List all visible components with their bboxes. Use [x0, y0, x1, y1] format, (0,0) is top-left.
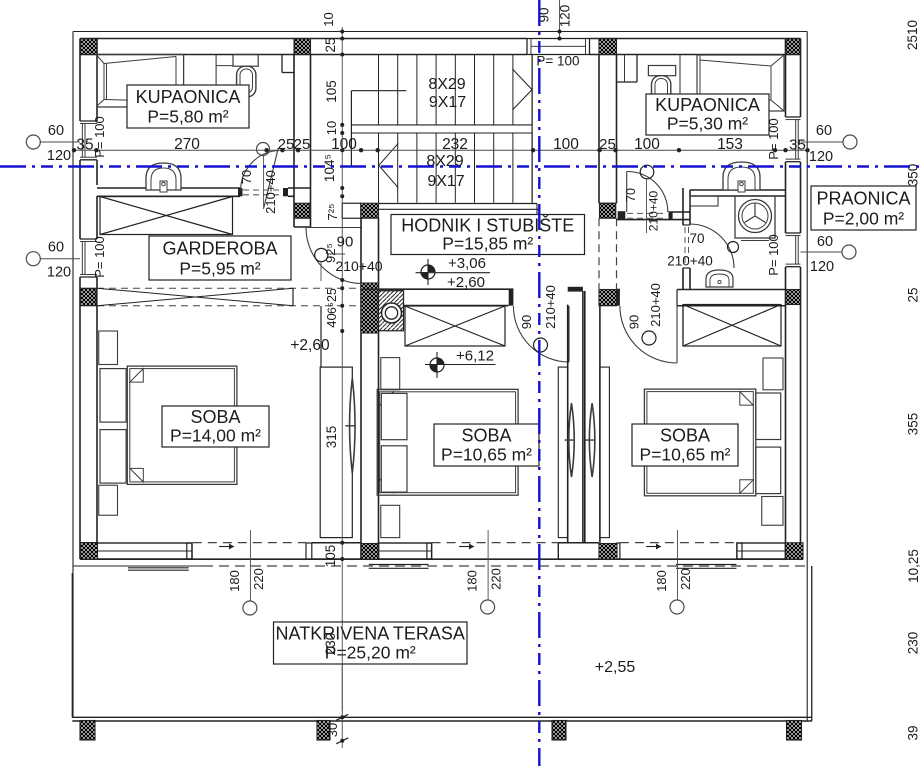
svg-text:P=5,95 m²: P=5,95 m² — [179, 258, 260, 278]
svg-text:60: 60 — [48, 123, 64, 139]
svg-text:9X17: 9X17 — [429, 94, 466, 111]
svg-text:70: 70 — [624, 188, 638, 202]
svg-text:120: 120 — [558, 5, 573, 28]
svg-text:P=10,65 m²: P=10,65 m² — [441, 445, 532, 465]
svg-text:70: 70 — [689, 231, 704, 246]
svg-text:P=25,20 m²: P=25,20 m² — [325, 643, 416, 663]
svg-text:P= 100: P= 100 — [536, 54, 579, 69]
svg-text:+2,60: +2,60 — [290, 337, 330, 354]
svg-text:105: 105 — [324, 80, 339, 103]
svg-text:120: 120 — [47, 148, 71, 164]
svg-text:90: 90 — [519, 315, 534, 329]
svg-text:KUPAONICA: KUPAONICA — [136, 87, 241, 107]
svg-text:10: 10 — [324, 121, 339, 135]
svg-text:30: 30 — [325, 723, 340, 737]
svg-text:8X29: 8X29 — [428, 76, 465, 93]
svg-text:+3,06: +3,06 — [448, 255, 486, 272]
svg-text:KUPAONICA: KUPAONICA — [655, 95, 760, 115]
svg-text:39: 39 — [906, 725, 921, 740]
svg-text:25: 25 — [323, 37, 338, 52]
svg-text:220: 220 — [251, 568, 266, 590]
svg-text:25: 25 — [294, 136, 311, 153]
svg-text:120: 120 — [810, 259, 834, 275]
svg-text:60: 60 — [816, 123, 832, 139]
svg-text:220: 220 — [678, 568, 693, 590]
svg-text:232: 232 — [442, 136, 468, 153]
svg-text:40: 40 — [324, 313, 339, 327]
svg-text:230: 230 — [323, 633, 338, 656]
svg-text:180: 180 — [465, 570, 480, 592]
svg-text:P=5,80 m²: P=5,80 m² — [147, 106, 228, 126]
svg-text:HODNIK I STUBIŠTE: HODNIK I STUBIŠTE — [401, 214, 574, 235]
svg-text:220: 220 — [489, 568, 504, 590]
svg-text:+6,12: +6,12 — [456, 348, 494, 365]
svg-text:35: 35 — [789, 136, 806, 153]
svg-text:SOBA: SOBA — [660, 426, 710, 446]
svg-text:180: 180 — [654, 570, 669, 592]
svg-text:270: 270 — [174, 136, 200, 153]
svg-text:105: 105 — [323, 545, 338, 568]
svg-text:355: 355 — [906, 413, 921, 436]
svg-text:6⁵: 6⁵ — [325, 302, 339, 314]
svg-text:SOBA: SOBA — [461, 426, 511, 446]
svg-text:120: 120 — [809, 149, 833, 165]
svg-text:90: 90 — [337, 234, 354, 251]
svg-text:P= 100: P= 100 — [766, 234, 781, 276]
svg-text:NATKRIVENA TERASA: NATKRIVENA TERASA — [276, 624, 465, 644]
svg-text:210+40: 210+40 — [335, 258, 382, 274]
svg-text:10,25: 10,25 — [906, 549, 921, 583]
svg-text:210+40: 210+40 — [543, 285, 558, 329]
svg-text:210+40: 210+40 — [648, 283, 663, 327]
svg-text:25: 25 — [599, 136, 616, 153]
svg-text:7²⁵: 7²⁵ — [325, 204, 340, 221]
svg-text:GARDEROBA: GARDEROBA — [162, 238, 277, 258]
svg-text:100: 100 — [634, 136, 660, 153]
svg-text:315: 315 — [324, 426, 339, 449]
svg-text:90: 90 — [627, 315, 642, 329]
svg-text:60: 60 — [48, 240, 64, 256]
svg-text:P=14,00 m²: P=14,00 m² — [170, 426, 261, 446]
svg-text:25: 25 — [278, 136, 295, 153]
svg-text:P=5,30 m²: P=5,30 m² — [667, 114, 748, 134]
svg-text:SOBA: SOBA — [190, 407, 240, 427]
svg-text:60: 60 — [817, 234, 833, 250]
svg-text:70: 70 — [239, 170, 254, 184]
svg-text:9X17: 9X17 — [427, 173, 464, 190]
svg-text:P=2,00 m²: P=2,00 m² — [823, 208, 904, 228]
svg-text:P=15,85 m²: P=15,85 m² — [442, 233, 533, 253]
svg-text:+2,55: +2,55 — [595, 659, 636, 676]
svg-text:120: 120 — [47, 265, 71, 281]
svg-text:153: 153 — [717, 136, 743, 153]
svg-text:25: 25 — [906, 287, 921, 302]
svg-text:230: 230 — [906, 632, 921, 655]
svg-text:P= 100: P= 100 — [92, 236, 107, 278]
svg-text:210+40: 210+40 — [263, 170, 278, 214]
svg-text:P= 100: P= 100 — [92, 116, 107, 158]
svg-text:210+40: 210+40 — [647, 190, 661, 231]
svg-text:104⁵: 104⁵ — [322, 154, 337, 182]
svg-text:10: 10 — [321, 12, 336, 26]
svg-text:2510: 2510 — [905, 20, 920, 50]
svg-text:210+40: 210+40 — [667, 254, 712, 269]
svg-text:25: 25 — [325, 288, 339, 302]
svg-text:180: 180 — [227, 570, 242, 592]
svg-text:+2,60: +2,60 — [447, 274, 485, 291]
svg-text:P=10,65 m²: P=10,65 m² — [640, 445, 731, 465]
svg-text:100: 100 — [553, 136, 579, 153]
svg-text:PRAONICA: PRAONICA — [816, 188, 910, 208]
